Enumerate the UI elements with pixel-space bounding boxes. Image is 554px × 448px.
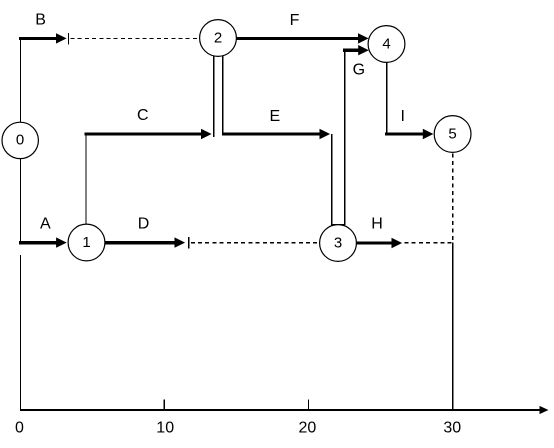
wire: left vertical connector from B line down to node 0 top xyxy=(20,38,22,122)
activity E arrowhead xyxy=(320,129,331,139)
svg-text:0: 0 xyxy=(15,420,24,437)
node 3 top bar xyxy=(331,224,345,226)
axis arrowhead xyxy=(540,406,549,414)
node 1 xyxy=(68,224,105,261)
activity B thick arrow shaft xyxy=(19,37,58,40)
activity D arrowhead xyxy=(175,237,186,247)
activity H thick arrow shaft xyxy=(356,241,393,244)
activity E thick arrow shaft xyxy=(222,132,321,135)
activity D completion tick xyxy=(188,237,190,248)
svg-text:A: A xyxy=(40,216,51,233)
activity I thick arrow shaft xyxy=(385,132,424,135)
axis tick 10 xyxy=(163,399,165,410)
svg-text:2: 2 xyxy=(214,30,222,47)
activity G thick arrow shaft xyxy=(343,49,360,52)
activity I arrowhead xyxy=(423,129,434,139)
svg-text:G: G xyxy=(353,61,365,78)
node 2 xyxy=(200,20,237,57)
node 2 right drop (E connector) xyxy=(222,56,224,134)
svg-text:E: E xyxy=(270,108,281,125)
activity C thick arrow shaft xyxy=(85,132,204,135)
svg-text:1: 1 xyxy=(82,234,90,251)
svg-text:F: F xyxy=(290,12,300,29)
node 5 xyxy=(434,116,471,153)
activity F arrowhead xyxy=(358,33,369,43)
activity H float dashed line xyxy=(405,242,453,244)
svg-text:10: 10 xyxy=(156,420,174,437)
svg-text:0: 0 xyxy=(16,131,24,148)
activity C arrowhead xyxy=(201,129,212,139)
axis: x-axis horizontal line xyxy=(20,409,541,411)
activity B arrowhead xyxy=(56,33,67,43)
svg-text:5: 5 xyxy=(448,126,456,143)
node 4 drop (I connector) xyxy=(386,62,388,134)
E drop to node 3 xyxy=(331,134,333,225)
activity D thick arrow shaft xyxy=(105,241,177,244)
activity B completion tick xyxy=(68,33,70,44)
svg-text:C: C xyxy=(137,107,149,124)
activity C riser from node 1 top xyxy=(85,134,87,225)
activity H arrowhead xyxy=(392,238,403,248)
svg-text:3: 3 xyxy=(334,235,342,252)
svg-text:H: H xyxy=(371,216,383,233)
activity D float dashed line xyxy=(191,242,319,244)
activity G riser from node 3 xyxy=(344,50,346,225)
node 4 xyxy=(368,26,405,63)
tick at node 2 left edge xyxy=(199,34,201,43)
svg-text:B: B xyxy=(35,12,46,29)
svg-text:30: 30 xyxy=(443,420,461,437)
wire: y-axis vertical line below A xyxy=(20,255,22,410)
node 0 xyxy=(2,122,38,158)
svg-text:20: 20 xyxy=(299,420,317,437)
activity F thick arrow shaft xyxy=(236,37,360,40)
activity G arrowhead xyxy=(358,45,369,55)
axis tick 20 xyxy=(307,399,309,410)
activity A thick arrow shaft xyxy=(19,241,58,244)
svg-text:4: 4 xyxy=(382,36,390,53)
wire: left vertical connector from node 0 bottom down to A line xyxy=(20,158,22,241)
node 3 xyxy=(320,225,357,262)
completion vertical line at t=30 xyxy=(452,243,454,411)
node 5 dashed drop to completion junction xyxy=(452,153,454,242)
activity B float dashed line xyxy=(71,37,198,39)
node 2 left drop (C connector) xyxy=(213,56,215,137)
svg-text:D: D xyxy=(138,216,150,233)
activity A arrowhead xyxy=(56,237,67,247)
svg-text:I: I xyxy=(401,108,405,125)
